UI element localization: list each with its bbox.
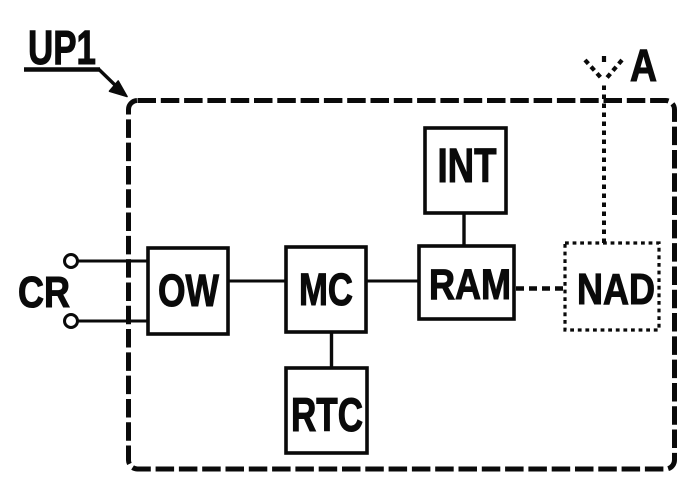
block MC (286, 247, 366, 332)
leader arrow from UP1 label to enclosure corner (99, 69, 128, 97)
wire MC to RTC (330, 332, 333, 368)
wire OW to MC (228, 280, 286, 283)
svg-text:OW: OW (158, 265, 219, 316)
dotted wire NAD to antenna (602, 82, 606, 243)
block RTC (286, 368, 367, 453)
svg-text:UP1: UP1 (28, 22, 96, 75)
wire MC to RAM (366, 280, 419, 283)
svg-text:CR: CR (18, 268, 70, 317)
svg-text:INT: INT (438, 140, 497, 193)
label A (630, 40, 657, 91)
label UP1 with underline (24, 22, 100, 75)
svg-text:MC: MC (299, 264, 353, 315)
antenna (dotted V) (585, 56, 622, 80)
microprocessor unit UP1 dashed enclosure (129, 101, 675, 470)
block RAM (419, 246, 514, 319)
svg-text:RAM: RAM (429, 261, 511, 309)
svg-text:RTC: RTC (291, 388, 363, 441)
block OW (148, 248, 228, 334)
block INT (425, 128, 506, 213)
dashed wire RAM to NAD (516, 286, 565, 290)
wire INT to RAM (462, 213, 465, 246)
block NAD (dotted outline) (565, 243, 659, 330)
wire CR bottom terminal to OW (78, 320, 148, 323)
wire CR top terminal to OW (78, 260, 148, 263)
node CR bottom terminal (65, 315, 78, 328)
svg-text:NAD: NAD (577, 265, 655, 314)
label CR (18, 268, 70, 317)
svg-text:A: A (630, 40, 657, 91)
node CR top terminal (65, 255, 78, 268)
